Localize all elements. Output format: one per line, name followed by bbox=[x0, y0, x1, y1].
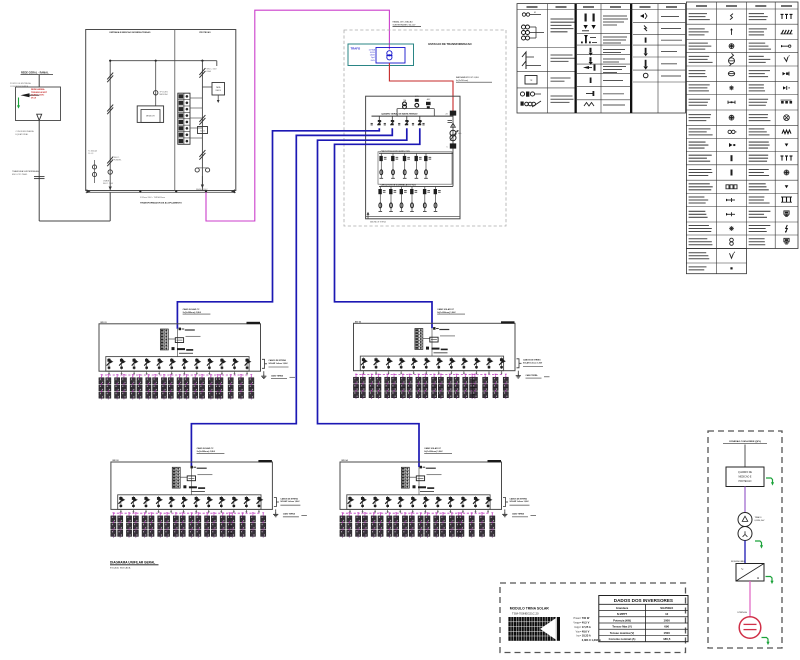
svg-text:700 W: 700 W bbox=[582, 616, 590, 620]
svg-text:Impp=: Impp= bbox=[574, 626, 581, 629]
legend B symbol c4 box-gnd bbox=[784, 211, 789, 214]
switchgear LV box bbox=[366, 96, 460, 219]
legend B headers bbox=[696, 5, 707, 7]
ground 04 bbox=[504, 509, 506, 511]
string link rail 03 bbox=[113, 512, 260, 514]
legend sym zigzag bbox=[584, 103, 594, 107]
svg-text:Vmpp=: Vmpp= bbox=[573, 622, 581, 625]
switchgear bottom tick bbox=[367, 214, 369, 219]
pv array 04 bbox=[340, 512, 495, 537]
svg-text:SOLAR 1x6mm 1,8kV: SOLAR 1x6mm 1,8kV bbox=[523, 362, 543, 365]
svg-text:1000: 1000 bbox=[663, 618, 670, 622]
svg-text:TRAVESSIA SUBTERRANEA: TRAVESSIA SUBTERRANEA bbox=[12, 170, 39, 173]
legend B desc c1 bbox=[689, 28, 705, 30]
svg-text:CONCESSIONARIA: CONCESSIONARIA bbox=[16, 130, 35, 133]
string breaker 01-8 bbox=[194, 358, 201, 370]
legend B symbol c4 tripleT bbox=[781, 13, 784, 15]
svg-text:EQUATORIAL: EQUATORIAL bbox=[16, 133, 30, 136]
legend B desc c1 extra bbox=[689, 252, 707, 254]
legend B symbol c4 arrow-bar bbox=[783, 86, 786, 89]
pv array 02 bbox=[353, 374, 508, 399]
multimeter M1 bbox=[450, 130, 456, 136]
switch glyph bottom 01 bbox=[172, 347, 175, 350]
string breaker 04-1 bbox=[348, 496, 355, 508]
legend B symbol c4 fence bbox=[782, 197, 784, 202]
svg-text:13,8kV - 60Hz: 13,8kV - 60Hz bbox=[31, 95, 44, 97]
legend B desc c1 bbox=[689, 55, 710, 57]
transformer TRAFO enclosure bbox=[348, 44, 414, 66]
svg-text:690: 690 bbox=[664, 625, 669, 629]
legend B desc c1 bbox=[689, 84, 710, 86]
svg-text:4x(3x240mm): 4x(3x240mm) bbox=[456, 80, 469, 82]
string breaker 03-5 bbox=[169, 496, 176, 508]
legend table B frame bbox=[686, 2, 798, 249]
dc combiner 02 bbox=[430, 337, 438, 342]
string breaker 02-9 bbox=[462, 358, 469, 370]
svg-text:Z=6%: Z=6% bbox=[371, 60, 376, 62]
string link rail 01 bbox=[101, 374, 248, 376]
string breaker 01-1 bbox=[107, 358, 114, 370]
svg-text:48,6 V: 48,6 V bbox=[582, 629, 590, 633]
dc combiner 03 bbox=[187, 476, 195, 481]
wire entry stub 04 bbox=[418, 467, 420, 495]
legend sym arr1 bbox=[645, 48, 647, 53]
string breaker 04-3 bbox=[373, 496, 380, 508]
string breaker 04-4 bbox=[385, 496, 392, 508]
legend B desc c3 bbox=[749, 169, 769, 171]
legend B symbol c2 tee2 bbox=[728, 213, 735, 215]
svg-text:REDE GERAL - RAMAL: REDE GERAL - RAMAL bbox=[21, 72, 49, 75]
legend B symbol c2 star2 bbox=[729, 228, 734, 230]
legend sym horiz arrow bbox=[583, 66, 589, 69]
svg-text:QUADRO DE: QUADRO DE bbox=[738, 471, 752, 474]
incoming arrow bbox=[21, 93, 30, 97]
svg-text:TC 600-5A: TC 600-5A bbox=[88, 150, 97, 153]
pv array 03 bbox=[111, 512, 266, 537]
green arrow strings bbox=[762, 638, 769, 643]
string terminal strip 03 bbox=[172, 467, 180, 488]
legend sym small bar bbox=[590, 78, 592, 84]
svg-text:CABOS DE STRING: CABOS DE STRING bbox=[269, 359, 287, 362]
legend B desc c3 bbox=[749, 141, 769, 143]
legend B symbol c2 circle-plus bbox=[729, 44, 734, 49]
legend header bbox=[556, 6, 567, 8]
svg-text:=: = bbox=[757, 577, 759, 581]
bracket cabos 02 bbox=[517, 359, 520, 368]
module dashed box bbox=[500, 583, 686, 653]
switch glyph top 01 bbox=[179, 328, 181, 331]
svg-text:FUSIVEL: FUSIVEL bbox=[114, 160, 122, 162]
string breaker 04-5 bbox=[398, 496, 405, 508]
legend header bbox=[583, 6, 594, 8]
legend sym arr2 bbox=[645, 60, 647, 66]
svg-text:CONEXAO COM A REDE (QPL): CONEXAO COM A REDE (QPL) bbox=[729, 440, 761, 443]
breaker QF4 bbox=[418, 120, 422, 125]
legend B symbol c2 gear bbox=[728, 130, 731, 133]
legend sym lightning bbox=[644, 26, 647, 32]
svg-text:5: 5 bbox=[447, 146, 448, 148]
legend B symbol c2 sectioning bbox=[730, 53, 734, 58]
svg-text:CONCESSIONARIA: CONCESSIONARIA bbox=[10, 85, 29, 88]
svg-text:TRAFO: TRAFO bbox=[351, 46, 361, 50]
string breaker 04-11 bbox=[473, 496, 480, 508]
bracket cabos 04 bbox=[503, 498, 506, 507]
svg-text:INVERSORES: INVERSORES bbox=[731, 561, 746, 563]
string breaker 04-6 bbox=[410, 496, 417, 508]
svg-text:RAIOS: RAIOS bbox=[216, 89, 222, 92]
legend B symbol c4 bolt bbox=[786, 225, 788, 232]
legend sym bar2 bbox=[590, 57, 592, 62]
switch glyph bottom 02 bbox=[426, 347, 429, 350]
wire entry stub 01 bbox=[176, 329, 178, 357]
svg-text:ENTRADA E MEDICAO EM MEDIA TEN: ENTRADA E MEDICAO EM MEDIA TENSAO bbox=[110, 31, 151, 34]
svg-text:TRAFO: TRAFO bbox=[755, 516, 762, 519]
legend desc 2 bbox=[551, 54, 573, 56]
fuse column B2 bbox=[389, 186, 396, 211]
svg-text:TRANSFORMADOR DE ACOPLAMENTO: TRANSFORMADOR DE ACOPLAMENTO bbox=[140, 202, 182, 205]
legend B desc c1 bbox=[689, 183, 710, 185]
string terminal strip 01 bbox=[160, 329, 168, 350]
transformer T2 bbox=[738, 513, 752, 527]
svg-text:SOLAR 1x6mm 1,8kV: SOLAR 1x6mm 1,8kV bbox=[280, 500, 300, 503]
svg-text:3#95mm 20kV + TERRA 50mm: 3#95mm 20kV + TERRA 50mm bbox=[140, 196, 166, 199]
string breaker 02-6 bbox=[424, 358, 431, 370]
switchgear bottom edge bbox=[366, 216, 460, 218]
string breaker 01-6 bbox=[169, 358, 176, 370]
bus circuits B bbox=[379, 185, 453, 187]
string breaker 04-12 bbox=[486, 496, 493, 508]
svg-text:CABO SOLAR CC: CABO SOLAR CC bbox=[197, 447, 214, 450]
meter marks bbox=[448, 120, 453, 122]
relay box bbox=[198, 127, 208, 134]
wire DC feeder W2 bbox=[191, 128, 392, 467]
string bus box 02 bbox=[360, 356, 503, 371]
entrance down triangle bbox=[37, 114, 42, 120]
breaker QF2 bbox=[390, 120, 394, 125]
legend B desc c1 bbox=[689, 141, 706, 143]
svg-text:STRINGS: STRINGS bbox=[737, 612, 747, 614]
svg-text:Grandeza: Grandeza bbox=[616, 606, 629, 610]
svg-text:INV 04: INV 04 bbox=[342, 459, 349, 462]
svg-text:SOLAR 1x6mm 1,8kV: SOLAR 1x6mm 1,8kV bbox=[510, 500, 530, 503]
svg-text:INV 01: INV 01 bbox=[101, 322, 108, 324]
switch glyph top 03 bbox=[191, 466, 193, 469]
legend desc 3 bbox=[551, 77, 571, 79]
switch S7 bbox=[199, 150, 205, 157]
dc combiner 04 bbox=[416, 476, 424, 481]
string breaker 04-10 bbox=[461, 496, 468, 508]
switch S6 bbox=[199, 115, 205, 122]
legend B desc c3 bbox=[749, 154, 768, 156]
svg-text:SUBTERRANEO 34,5kV: SUBTERRANEO 34,5kV bbox=[393, 23, 416, 26]
wire entry stub 02 bbox=[431, 328, 433, 356]
string breaker 02-2 bbox=[374, 358, 381, 370]
svg-text:DIAGRAMA UNIFILAR GERAL: DIAGRAMA UNIFILAR GERAL bbox=[110, 561, 155, 565]
breaker QG2 bbox=[450, 143, 456, 148]
breaker QF1 bbox=[377, 120, 381, 125]
bracket cabos 03 bbox=[274, 498, 277, 507]
instrument transformer TP bbox=[155, 61, 157, 106]
ground 01 bbox=[263, 371, 265, 373]
string breaker 03-1 bbox=[119, 496, 126, 508]
fuse column B5 bbox=[423, 186, 430, 211]
svg-text:Corrente nominal (A): Corrente nominal (A) bbox=[609, 637, 636, 641]
grid connection dashed box bbox=[708, 431, 782, 648]
svg-text:1500: 1500 bbox=[663, 631, 670, 635]
legend B desc c3 bbox=[749, 196, 765, 198]
svg-text:INV 03: INV 03 bbox=[112, 460, 119, 462]
switch S5 bbox=[199, 68, 205, 75]
green arrow qpl bbox=[766, 478, 773, 483]
legend B desc c3 bbox=[749, 210, 771, 212]
legend sym machine bbox=[520, 92, 524, 96]
string bus box 01 bbox=[106, 357, 249, 372]
surge arrester branch bbox=[202, 86, 212, 88]
inverter unit 02 box bbox=[354, 323, 516, 370]
svg-text:Tensao Max (V): Tensao Max (V) bbox=[612, 625, 632, 629]
inverter symbol bbox=[736, 564, 764, 582]
string link rail 02 bbox=[356, 374, 503, 376]
legend B symbol c2 V bbox=[730, 253, 734, 258]
bottom bus junctions bbox=[139, 191, 141, 193]
legend B desc c3 bbox=[749, 114, 768, 116]
svg-text:CHAVE: CHAVE bbox=[103, 180, 110, 183]
legend B symbol c2 hook bbox=[730, 14, 733, 20]
legend B symbol c4 zigzag bbox=[782, 130, 791, 134]
svg-text:3F+N: 3F+N bbox=[31, 97, 37, 99]
svg-text:CABO TERRA: CABO TERRA bbox=[271, 374, 284, 377]
legend B desc c3 bbox=[749, 128, 765, 130]
legend B symbol c4 probe bbox=[783, 45, 789, 47]
legend sym updown bbox=[585, 36, 587, 42]
legend B symbol c4 hatch bbox=[782, 30, 784, 34]
inverter data table bbox=[599, 596, 688, 642]
string breaker 03-4 bbox=[156, 496, 163, 508]
string bus box 03 bbox=[118, 495, 261, 510]
svg-text:ESCALA: INDICADA: ESCALA: INDICADA bbox=[110, 567, 131, 570]
string bus box 04 bbox=[347, 495, 490, 510]
legend B desc c1 bbox=[689, 13, 707, 15]
string breaker 03-2 bbox=[131, 496, 138, 508]
svg-text:MEDIDOR: MEDIDOR bbox=[146, 116, 155, 118]
svg-text:SECC. 15kV: SECC. 15kV bbox=[207, 69, 218, 71]
legend sym plug bbox=[640, 14, 644, 18]
legend B symbol c4 tripleT2 bbox=[781, 155, 784, 157]
switch glyph bottom 03 bbox=[183, 485, 186, 488]
wire violet bbox=[744, 487, 746, 513]
svg-text:SECC. 15kV: SECC. 15kV bbox=[103, 183, 114, 185]
legend B desc c1 bbox=[689, 169, 712, 171]
svg-text:0,8/34,5kV: 0,8/34,5kV bbox=[755, 520, 766, 522]
legend B symbol c4 box-gnd2 bbox=[784, 238, 789, 241]
svg-text:N MPPT: N MPPT bbox=[617, 612, 628, 616]
string breaker 01-2 bbox=[119, 358, 126, 370]
legend B symbol c2 marker bbox=[729, 115, 734, 120]
estacao dashed boundary bbox=[344, 30, 506, 226]
legend sym disconnector bbox=[522, 52, 526, 62]
green arrow inverter bbox=[766, 577, 773, 582]
metering cubicle bbox=[137, 106, 163, 123]
bus protecao bbox=[201, 61, 203, 191]
string breaker 02-5 bbox=[411, 358, 418, 370]
svg-text:CABO SOLAR CC: CABO SOLAR CC bbox=[424, 447, 441, 450]
legend B desc c3 bbox=[749, 238, 765, 240]
substation cubicle box bbox=[86, 30, 236, 191]
legend B desc c3 bbox=[749, 84, 764, 86]
ground 03 bbox=[275, 509, 277, 511]
legend B desc c1 bbox=[689, 70, 706, 72]
legend B symbol c2 last bbox=[730, 267, 732, 269]
legend B desc c1 bbox=[689, 98, 710, 100]
string breaker 02-8 bbox=[449, 358, 456, 370]
svg-text:PROTECAO: PROTECAO bbox=[739, 480, 752, 483]
svg-text:40,5 V: 40,5 V bbox=[582, 621, 590, 625]
string breaker 01-12 bbox=[245, 358, 252, 370]
string breaker 02-3 bbox=[386, 358, 393, 370]
svg-text:50/51: 50/51 bbox=[200, 130, 205, 132]
svg-text:QUADRO GERAL DE BAIXA TENSAO: QUADRO GERAL DE BAIXA TENSAO bbox=[381, 113, 418, 116]
legend B symbol c2 bar2 bbox=[731, 170, 733, 176]
string breaker 03-8 bbox=[206, 496, 213, 508]
switch glyph top 04 bbox=[420, 466, 422, 469]
fuse column A4 bbox=[415, 153, 422, 178]
distribution panel A box bbox=[378, 152, 452, 184]
svg-text:RAMAL DE LIGACAO: RAMAL DE LIGACAO bbox=[393, 21, 414, 24]
svg-text:CABO SOLAR CC: CABO SOLAR CC bbox=[183, 308, 200, 311]
legend desc 4 bbox=[551, 95, 573, 97]
svg-text:REDE AEREA: REDE AEREA bbox=[31, 88, 45, 91]
string breaker 01-5 bbox=[157, 358, 164, 370]
svg-text:DADOS DOS INVERSORES: DADOS DOS INVERSORES bbox=[614, 598, 673, 603]
fuse column B3 bbox=[400, 186, 407, 211]
fuse column A5 bbox=[424, 153, 431, 178]
svg-text:12: 12 bbox=[665, 612, 669, 616]
string breaker 04-9 bbox=[448, 496, 455, 508]
wire entry stub 03 bbox=[190, 467, 192, 495]
legend sym bar1 bbox=[590, 48, 592, 53]
svg-text:Tensao maxima (V): Tensao maxima (V) bbox=[610, 631, 634, 635]
string breaker 01-7 bbox=[182, 358, 189, 370]
svg-text:MALHA DE TERRA: MALHA DE TERRA bbox=[370, 221, 386, 224]
wire magenta strings bbox=[749, 581, 751, 616]
svg-text:PONTO DE ENTREGA: PONTO DE ENTREGA bbox=[10, 82, 31, 85]
legend table A frame bbox=[517, 4, 686, 113]
string breaker 03-11 bbox=[244, 496, 251, 508]
wire qpl drop bbox=[744, 445, 746, 468]
legend B symbol c2 eight bbox=[730, 238, 734, 242]
svg-text:MODULO TRINA SOLAR: MODULO TRINA SOLAR bbox=[510, 606, 550, 610]
legend desc 1 bbox=[551, 18, 574, 20]
inverter unit 04 box bbox=[340, 462, 502, 509]
disconnect switch S1 bbox=[107, 73, 113, 80]
legend B symbol c2 arrow bbox=[731, 30, 733, 35]
legend B symbol c2 coil3 bbox=[726, 185, 729, 189]
legend sym circle bbox=[643, 73, 648, 78]
wire DC feeder W1 bbox=[177, 128, 379, 328]
string breaker 02-1 bbox=[361, 358, 368, 370]
svg-text:kWh: kWh bbox=[458, 133, 461, 135]
dc combiner 01 bbox=[175, 338, 183, 343]
string terminal strip 02 bbox=[415, 329, 423, 350]
svg-text:EM DUTO PEAD: EM DUTO PEAD bbox=[12, 173, 28, 176]
breaker QG main bbox=[452, 111, 454, 187]
wire MT top tie bbox=[110, 60, 217, 62]
svg-text:CABO TERRA: CABO TERRA bbox=[283, 513, 296, 516]
legend B symbol c4 circleplus bbox=[784, 170, 789, 175]
string breaker 04-8 bbox=[435, 496, 442, 508]
legend B symbol c2 oval bbox=[728, 71, 734, 75]
svg-text:2x(1x300mm) 1,8kV: 2x(1x300mm) 1,8kV bbox=[197, 451, 216, 453]
disconnect switch S2 bbox=[107, 105, 113, 112]
mark bus tap bbox=[398, 122, 400, 124]
fuse column A3 bbox=[403, 153, 410, 178]
svg-text:MEDICAO: MEDICAO bbox=[160, 93, 169, 96]
fuse column A1 bbox=[379, 153, 386, 178]
svg-text:Dyn1: Dyn1 bbox=[371, 57, 375, 59]
switch glyph bottom 04 bbox=[413, 485, 416, 488]
legend B desc c1 bbox=[689, 196, 705, 198]
string breaker 01-3 bbox=[132, 358, 139, 370]
legend header bbox=[610, 6, 621, 8]
svg-text:CABOS DE STRING: CABOS DE STRING bbox=[523, 359, 541, 362]
legend sym arrows down bbox=[585, 14, 587, 22]
switch S3 bbox=[107, 157, 113, 164]
legend sym transformer 2w bbox=[522, 13, 525, 16]
string breaker 02-4 bbox=[399, 358, 406, 370]
CT pair protecao bbox=[195, 168, 199, 172]
string breaker 04-7 bbox=[423, 496, 430, 508]
string breaker 01-11 bbox=[232, 358, 239, 370]
svg-text:23: 23 bbox=[446, 114, 448, 116]
legend B desc c3 bbox=[749, 13, 764, 15]
legend desc p2r1 bbox=[603, 15, 627, 17]
legend B symbol c2 star bbox=[729, 87, 734, 89]
switch glyph top 02 bbox=[433, 327, 435, 330]
legend B symbol c2 play bbox=[729, 143, 733, 147]
protection panel QPL bbox=[726, 467, 764, 487]
svg-text:CABO TERRA: CABO TERRA bbox=[512, 513, 525, 516]
bus circuits A bbox=[379, 152, 453, 154]
svg-text:CABOS DE STRING: CABOS DE STRING bbox=[280, 497, 298, 500]
legend B desc c3 bbox=[749, 70, 770, 72]
legend B symbol c4 tri bbox=[785, 144, 789, 147]
legend header bbox=[640, 6, 651, 8]
string breaker 02-7 bbox=[436, 358, 443, 370]
transformer TR1 bbox=[376, 48, 405, 64]
svg-text:CABO TERRA: CABO TERRA bbox=[526, 374, 539, 377]
svg-text:CABOS DE STRING: CABOS DE STRING bbox=[510, 497, 528, 500]
legend B desc c1 bbox=[689, 128, 711, 130]
fuse column B6 bbox=[434, 186, 441, 211]
breaker QF3 bbox=[405, 120, 409, 125]
pv module drawing bbox=[508, 617, 555, 641]
legend B symbol c4 tri2 bbox=[785, 185, 789, 188]
aux transformer glyphs bbox=[403, 102, 407, 106]
utility entrance box bbox=[16, 87, 61, 121]
legend B desc c3 bbox=[749, 225, 771, 227]
fuse column B1 bbox=[378, 186, 385, 211]
legend B desc c3 bbox=[749, 28, 767, 30]
legend B symbol c4 squares bbox=[781, 101, 784, 104]
legend sym tap bbox=[586, 93, 594, 95]
svg-text:BARRAMENTO BT 0,8kV: BARRAMENTO BT 0,8kV bbox=[456, 76, 479, 79]
svg-text:PROTECAO: PROTECAO bbox=[199, 31, 211, 34]
legend B symbol c4 circle-x bbox=[784, 115, 790, 121]
string breaker 01-9 bbox=[207, 358, 214, 370]
svg-text:MEDICAO E: MEDICAO E bbox=[739, 476, 752, 479]
pv array 01 bbox=[99, 374, 254, 399]
wire DC feeder W3 bbox=[318, 128, 420, 467]
